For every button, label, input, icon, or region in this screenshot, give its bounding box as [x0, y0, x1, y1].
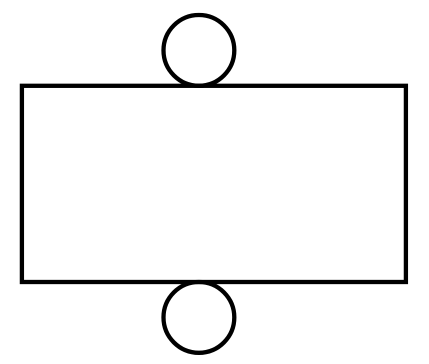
rectangle [22, 86, 406, 282]
top circle [164, 15, 235, 86]
bottom circle [164, 282, 235, 353]
